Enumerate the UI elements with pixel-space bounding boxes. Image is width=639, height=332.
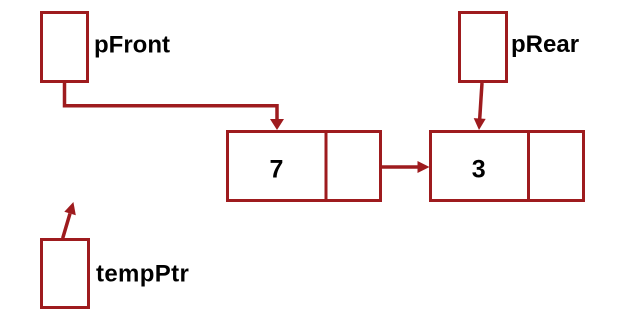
svg-text:pFront: pFront xyxy=(94,32,170,59)
wire node 1 next to node 2 xyxy=(382,165,418,169)
node 1 box xyxy=(228,132,381,201)
arrowhead pRear to node 2 xyxy=(474,118,486,130)
pointer box pRear xyxy=(460,13,507,82)
node 2 divider xyxy=(527,130,530,202)
pointer box tempPtr xyxy=(42,240,89,308)
node 1 divider xyxy=(325,130,328,202)
wire tempPtr up xyxy=(63,214,70,239)
arrowhead tempPtr xyxy=(64,202,76,215)
arrowhead node 1 to node 2 xyxy=(418,161,430,173)
wire pFront elbow xyxy=(65,83,278,120)
node 2 box xyxy=(431,132,584,201)
svg-text:pRear: pRear xyxy=(511,31,579,58)
arrowhead pFront to node 1 xyxy=(270,119,284,130)
wire pRear down xyxy=(480,83,482,119)
svg-text:tempPtr: tempPtr xyxy=(96,261,189,288)
pointer box pFront xyxy=(42,13,88,82)
svg-text:7: 7 xyxy=(270,156,284,184)
svg-text:3: 3 xyxy=(472,156,486,184)
